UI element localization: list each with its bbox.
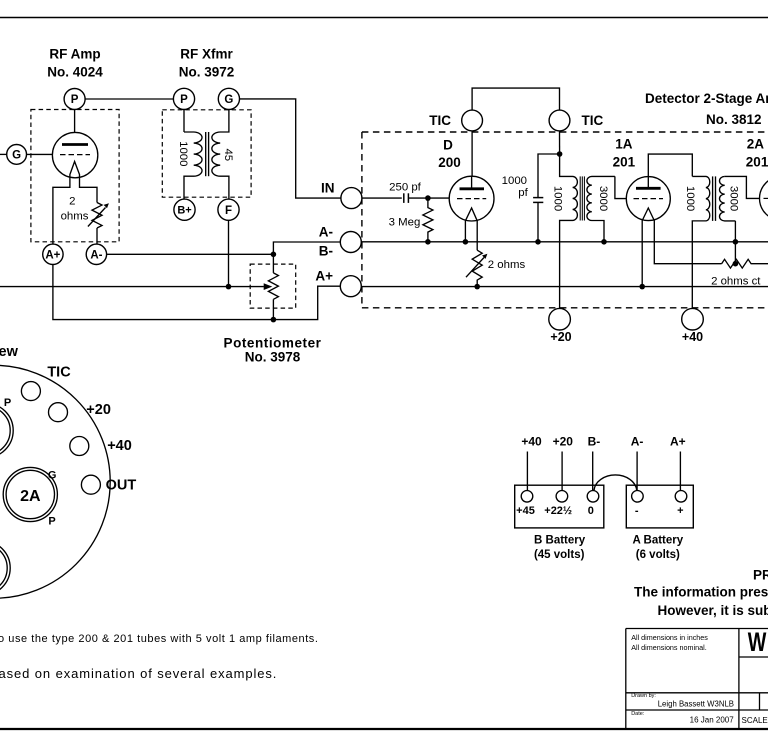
svg-text:3000: 3000 [727, 186, 739, 211]
wiper wire from left edge to pot arrow [0, 286, 264, 288]
svg-text:16 Jan 2007: 16 Jan 2007 [690, 716, 735, 725]
D tube plate lead [471, 176, 473, 189]
svg-text:TIC: TIC [47, 364, 71, 380]
pin +40 (socket view) [70, 437, 89, 456]
pin OUT (socket view) [81, 475, 100, 494]
AF xfmr T2 core [712, 176, 714, 221]
label 2A 201-A [746, 137, 768, 170]
label D 200 [438, 138, 461, 171]
svg-text:+20: +20 [553, 435, 574, 449]
svg-text:2: 2 [69, 196, 75, 208]
wire F terminal down to filament line [228, 220, 230, 286]
jumper arc B- to A- [594, 475, 637, 490]
svg-text:A-: A- [319, 224, 333, 239]
svg-text:A Battery: A Battery [632, 535, 683, 547]
wire R1 to A- terminal circle [96, 228, 98, 244]
resistor R2 3 Meg grid leak [423, 198, 433, 242]
svg-text:45: 45 [222, 148, 234, 161]
tube V1 RF amp envelope [52, 132, 97, 177]
battery terminal +22.5 [556, 491, 568, 503]
pot wiper arrowhead [264, 283, 273, 290]
terminal G (4024) [7, 145, 27, 165]
svg-text:P: P [48, 516, 55, 528]
potentiometer R 3978 element [268, 273, 278, 299]
junction C2 to A- bus [535, 239, 541, 245]
svg-text:+40: +40 [682, 330, 703, 344]
wire T2 secondary to 2A grid [725, 176, 760, 198]
svg-text:250 pf: 250 pf [389, 182, 422, 194]
svg-text:PRELIMINARY: PRELIMINARY [753, 568, 768, 583]
junction 1A filament A+ [639, 284, 645, 290]
junction pot top [271, 252, 277, 258]
wire battery A+ lead [679, 452, 681, 491]
RF xfmr primary coil 1000 [184, 132, 202, 199]
svg-text:No. 3972: No. 3972 [179, 65, 235, 80]
svg-text:IN: IN [321, 181, 335, 196]
AF xfmr T2 primary 1000 [692, 176, 710, 308]
wire battery +40 lead [526, 452, 528, 491]
svg-text:-: - [635, 505, 639, 517]
rheostat R3 2 ohms (detector) [472, 250, 482, 286]
svg-text:200: 200 [438, 155, 461, 170]
RF xfmr primary lead from P [183, 110, 185, 133]
svg-text:B-: B- [588, 435, 601, 449]
svg-text:201: 201 [613, 155, 636, 170]
2A grid (dashed) [764, 197, 768, 199]
terminal +20 [549, 308, 571, 330]
junction T2 secondary A- bus [733, 239, 739, 245]
rheostat R1 arrow [88, 208, 106, 227]
wire T1 secondary to 1A grid [615, 176, 627, 198]
svg-text:1000: 1000 [502, 175, 527, 187]
svg-text:W: W [748, 628, 767, 658]
svg-text:(6 volts): (6 volts) [636, 549, 680, 561]
wire battery B- lead [592, 452, 594, 491]
border top [0, 17, 768, 19]
pot bottom lead to A+ bottom wire [272, 299, 274, 319]
svg-text:ew: ew [0, 344, 19, 360]
D tube plate bar [460, 187, 485, 190]
svg-text:A+: A+ [670, 435, 686, 449]
svg-text:All dimensions in inches: All dimensions in inches [631, 633, 708, 642]
svg-text:No. 3812: No. 3812 [706, 112, 762, 127]
junction pot bottom [271, 317, 277, 323]
junction TIC2 / C2 / T1 [557, 151, 563, 157]
svg-text:OUT: OUT [106, 477, 137, 493]
svg-text:3000: 3000 [597, 186, 609, 211]
svg-text:pf: pf [518, 187, 528, 199]
svg-text:P: P [4, 397, 11, 409]
svg-text:TIC: TIC [429, 113, 451, 128]
wire G(3972) to IN terminal [240, 99, 341, 198]
svg-text:Date:: Date: [631, 711, 645, 717]
value 1000 pf [502, 175, 529, 199]
wire A- terminal to pot top junction [273, 242, 340, 254]
AF xfmr T1 secondary 3000 [587, 176, 615, 241]
svg-text:B+: B+ [177, 205, 191, 217]
AF xfmr T1 core [579, 176, 581, 220]
svg-text:2A: 2A [747, 137, 765, 152]
terminal A+ [340, 276, 361, 297]
V1 plate bar [62, 143, 88, 146]
wire P terminal to plate of V1 [74, 110, 76, 145]
dashed enclosure Potentiometer No.3978 [250, 264, 296, 308]
svg-text:2A: 2A [20, 488, 41, 505]
wire G(4024) to tube grid [27, 153, 53, 155]
svg-text:SCALE: SCALE [742, 716, 768, 725]
wire TIC1 to plate of D tube [471, 131, 473, 176]
bus A+ across detector [361, 286, 768, 288]
pin TIC (socket view) [21, 382, 40, 401]
svg-text:No. 4024: No. 4024 [47, 65, 103, 80]
svg-text:1000: 1000 [684, 186, 696, 211]
terminal A-/B- [340, 232, 361, 253]
svg-text:Leigh Bassett W3NLB: Leigh Bassett W3NLB [658, 699, 734, 708]
wire A+(4024) down and right along bottom [53, 265, 340, 320]
svg-text:A-: A- [90, 250, 102, 262]
svg-text:ased on examination of several: ased on examination of several examples. [0, 666, 277, 681]
wire TIC1 top link to TIC2 [472, 88, 559, 110]
dashed enclosure RF Amp No.4024 [31, 110, 119, 242]
1A filament and leads [642, 208, 721, 287]
svg-text:A+: A+ [315, 268, 333, 283]
V1 filament and leads to A+ / rheostat [53, 162, 97, 245]
wire cap to grid of D tube [408, 197, 449, 199]
terminal P (4024) [64, 89, 85, 110]
svg-text:However, it is subject to: However, it is subject to [658, 603, 768, 618]
battery terminal +45 [521, 491, 533, 503]
wire IN to coupling cap [362, 197, 402, 199]
socket 2A (double ring) [3, 467, 57, 521]
RF xfmr core [205, 132, 207, 176]
svg-text:+40: +40 [521, 435, 542, 449]
tube 1A 201 envelope [626, 177, 670, 221]
wire P(4024) to P(3972) [85, 98, 173, 100]
svg-text:ohms: ohms [61, 210, 89, 222]
terminal TIC 2 [549, 110, 570, 131]
capacitor C1 250 pf [403, 193, 405, 203]
svg-text:All dimensions nominal.: All dimensions nominal. [631, 643, 707, 652]
svg-text:TIC: TIC [582, 113, 604, 128]
1A plate lead to T2 primary [648, 154, 692, 188]
svg-text:P: P [71, 94, 79, 106]
AF xfmr T1 primary 1000 [560, 154, 578, 308]
terminal F (3972) [218, 199, 239, 220]
terminal P (3972) [173, 88, 194, 109]
svg-text:(45 volts): (45 volts) [534, 549, 585, 561]
wire battery A- lead [636, 452, 638, 491]
wire G(4024) to left edge [0, 153, 7, 155]
svg-text:+20: +20 [86, 402, 111, 418]
svg-text:B Battery: B Battery [534, 535, 586, 547]
svg-text:RF Amp: RF Amp [49, 47, 100, 62]
svg-text:1000: 1000 [552, 186, 564, 211]
svg-text:0: 0 [588, 505, 594, 517]
1A grid (dashed) [634, 198, 664, 200]
label A Battery (6 volts) [632, 535, 683, 562]
svg-text:B-: B- [319, 244, 333, 259]
junction D filament A- [463, 239, 469, 245]
svg-text:1000: 1000 [177, 141, 189, 166]
D tube grid (dashed) [457, 198, 486, 200]
terminal G (3972) [218, 88, 239, 109]
wire ct tap through A- bus to T2 secondary [734, 221, 736, 264]
1A plate bar [636, 187, 661, 190]
junction grid leak top [425, 195, 431, 201]
D tube filament and leads [465, 208, 477, 250]
battery terminal 0 [587, 491, 599, 503]
svg-text:A+: A+ [45, 250, 60, 262]
svg-text:P: P [180, 94, 188, 106]
svg-text:2 ohms: 2 ohms [488, 259, 526, 271]
svg-text:F: F [225, 205, 232, 217]
RF xfmr secondary coil 45 [212, 110, 229, 200]
wire TIC2 down to xfmr junction [559, 131, 561, 154]
socket 1A (partial, double ring) [0, 403, 13, 457]
svg-text:1A: 1A [615, 137, 633, 152]
dashed enclosure RF Xfmr No.3972 [162, 110, 251, 197]
dashed enclosure Detector 2-Stage assembly [362, 132, 768, 308]
svg-text:Drawn by:: Drawn by: [631, 693, 656, 699]
V1 grid (dashed) [60, 154, 90, 156]
svg-text:3 Meg: 3 Meg [389, 216, 421, 228]
svg-text:+40: +40 [107, 438, 132, 454]
terminal B+ (3972) [174, 199, 195, 220]
terminal A+ (4024) [43, 244, 63, 264]
svg-text:G: G [12, 150, 21, 162]
socket D (partial, double ring) [0, 541, 10, 595]
A Battery box [626, 485, 693, 528]
svg-text:+45: +45 [516, 505, 535, 517]
B Battery box [515, 485, 604, 528]
label Potentiometer No. 3978 [224, 336, 322, 365]
label RF Xfmr No. 3972 [179, 47, 235, 80]
svg-text:Potentiometer: Potentiometer [224, 336, 322, 351]
svg-text:201-A: 201-A [746, 155, 768, 170]
bus A-/B- across detector [361, 241, 768, 243]
terminal +40 [682, 308, 704, 330]
svg-text:Detector 2-Stage Amp: Detector 2-Stage Amp [645, 91, 768, 106]
svg-text:D: D [443, 138, 453, 153]
pin +20 (socket view) [49, 403, 68, 422]
svg-text:No. 3978: No. 3978 [245, 350, 301, 365]
wire battery +20 lead [561, 452, 563, 491]
junction grid leak bottom [425, 239, 431, 245]
svg-text:+22½: +22½ [544, 505, 572, 517]
svg-text:G: G [48, 469, 57, 481]
title block frame [626, 629, 768, 730]
tube D 200 envelope [449, 176, 494, 221]
svg-text:G: G [224, 94, 233, 106]
terminal A- (4024) [86, 244, 106, 264]
junction R3 to A+ bus [474, 284, 480, 290]
border bottom [0, 728, 768, 730]
tube 2A envelope (partial at edge) [760, 176, 768, 220]
svg-text:The information presented: The information presented [634, 585, 768, 600]
svg-text:2 ohms ct: 2 ohms ct [711, 275, 761, 287]
svg-text:+: + [677, 505, 683, 517]
label RF Amp No. 4024 [47, 47, 103, 80]
battery terminal minus [632, 491, 644, 503]
battery terminal plus [675, 491, 687, 503]
AF xfmr T2 secondary 3000 [720, 176, 736, 220]
svg-text:+20: +20 [550, 330, 571, 344]
svg-text:A-: A- [631, 435, 644, 449]
label 1A 201 [613, 137, 636, 170]
rheostat R3 arrow [466, 258, 484, 278]
title block note dimensions [631, 633, 708, 652]
socket view base circle [0, 365, 110, 598]
svg-text:RF Xfmr: RF Xfmr [180, 47, 233, 62]
terminal IN [341, 188, 362, 209]
junction F on wiper wire [226, 284, 232, 290]
rheostat R1 2 ohms (4024) [92, 203, 102, 229]
junction ct tap [733, 261, 739, 267]
terminal TIC 1 [462, 110, 483, 131]
capacitor C2 1000 pf [538, 154, 560, 242]
wire pot top lead [272, 254, 274, 273]
junction T1 secondary to A- bus [601, 239, 607, 245]
wire A-(4024) to pot junction [107, 253, 274, 255]
svg-text:o use the type 200 & 201 tubes: o use the type 200 & 201 tubes with 5 vo… [0, 633, 318, 645]
label B Battery (45 volts) [534, 535, 586, 562]
resistor R4 2 ohms ct [722, 259, 768, 268]
value 2 ohms (R1) [61, 196, 89, 223]
